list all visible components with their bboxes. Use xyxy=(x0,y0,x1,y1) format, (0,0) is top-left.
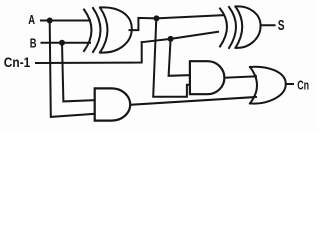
node Cn-1 junction xyxy=(168,36,174,42)
svg-text:Cn-1: Cn-1 xyxy=(4,55,31,70)
wire S output xyxy=(261,24,275,26)
node A junction xyxy=(47,18,53,24)
label Cn-1 xyxy=(4,55,31,70)
wire A branch down to AND gate G4 xyxy=(50,21,95,117)
and-gate G3 (middle) xyxy=(190,61,224,94)
wire Cn-1 branch down to AND gate G3 xyxy=(169,39,190,76)
wire Cn output xyxy=(286,83,293,85)
wire XOR G1 branch down to AND gate G3 xyxy=(153,18,190,96)
label B xyxy=(30,36,37,51)
wire A input xyxy=(41,20,90,22)
xor-gate G2 (sum) xyxy=(220,6,261,48)
wire Cn-1 input xyxy=(36,42,142,63)
label Cn xyxy=(297,77,309,92)
wire Cn-1 to XOR gate G2 xyxy=(142,32,218,42)
wire B branch down to AND gate G4 xyxy=(62,43,95,102)
label A xyxy=(28,12,35,27)
wire AND G3 output to OR gate G5 xyxy=(225,76,256,77)
xor-gate G1 (A xor B) xyxy=(84,7,132,52)
node XOR G1 output junction xyxy=(154,15,160,21)
and-gate G4 (bottom) xyxy=(95,88,130,120)
wire XOR G1 output to XOR G2 xyxy=(130,15,224,30)
wire AND G4 output to OR gate G5 xyxy=(130,97,256,105)
svg-text:A: A xyxy=(28,12,35,27)
svg-text:S: S xyxy=(278,17,285,34)
node B junction xyxy=(59,40,65,46)
svg-text:Cn: Cn xyxy=(297,77,309,92)
or-gate G5 (carry) xyxy=(250,67,286,104)
svg-text:B: B xyxy=(30,36,37,51)
label S xyxy=(278,17,285,34)
wire B input xyxy=(42,42,91,44)
